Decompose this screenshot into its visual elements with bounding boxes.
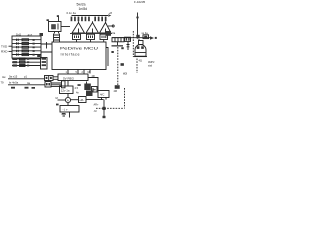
- xtal note: [148, 61, 155, 68]
- svg-text:4n7: 4n7: [28, 33, 33, 37]
- note text top: [77, 2, 88, 11]
- bell feed nub: [139, 39, 144, 45]
- junction dot HV: [136, 35, 139, 39]
- apex feed wires: [79, 21, 106, 23]
- RXD label: [1, 50, 12, 54]
- svg-text:F-10235: F-10235: [134, 0, 146, 4]
- dashed boundary bell left: [132, 31, 134, 57]
- svg-text:xtal: xtal: [148, 65, 152, 68]
- wire B1 to drivers: [61, 26, 70, 28]
- 12V supply box: [60, 84, 81, 93]
- svg-text:br 4n0a: br 4n0a: [9, 81, 19, 85]
- ladder label: [16, 33, 43, 37]
- breaker box: [125, 37, 131, 41]
- rail note text: [67, 11, 77, 15]
- svg-text:5V REG: 5V REG: [63, 76, 75, 80]
- TXD label: [1, 45, 12, 49]
- harness connector: [62, 81, 66, 88]
- MCU bottom pins: [66, 70, 91, 75]
- svg-text:1n/8d: 1n/8d: [79, 7, 88, 11]
- svg-text:4/C: 4/C: [100, 93, 104, 97]
- shunt to motor wire: [86, 99, 104, 101]
- HV feed line: [136, 13, 138, 38]
- load box: [98, 91, 109, 100]
- regulator box 5V: [58, 74, 88, 81]
- snubber box B1: [47, 19, 62, 31]
- ladder to MCU wires: [41, 42, 52, 52]
- label 4n: [76, 91, 79, 95]
- base box M1: [73, 34, 81, 42]
- driver transistor Q3: [100, 23, 112, 34]
- svg-text:1kΩ: 1kΩ: [16, 33, 21, 37]
- battery ground: [62, 112, 70, 118]
- part number top right: [134, 0, 146, 4]
- svg-text:A3: A3: [123, 71, 127, 75]
- svg-text:4.5: 4.5: [75, 86, 79, 90]
- base box M2: [87, 34, 95, 42]
- svg-text:4a: 4a: [27, 81, 30, 85]
- svg-text:RXD: RXD: [1, 50, 8, 54]
- capacitor C20: [127, 42, 130, 50]
- connector ladder J1: [54, 32, 60, 43]
- opto ladder block: [12, 36, 41, 58]
- svg-text:Interface: Interface: [61, 52, 80, 56]
- shield tie bar: [111, 42, 123, 53]
- harness wires: [51, 83, 62, 87]
- left filter row C: [12, 64, 41, 66]
- svg-text:4R: 4R: [92, 75, 95, 78]
- bell / horn: [134, 45, 148, 63]
- left filter row B: [12, 61, 41, 63]
- battery box: [56, 104, 79, 112]
- ladder components: [17, 39, 41, 57]
- svg-text:+M-: +M-: [79, 98, 84, 102]
- svg-text:0.1n 4a: 0.1n 4a: [67, 11, 77, 15]
- svg-text:A: A: [67, 98, 69, 102]
- svg-text:4Ω: 4Ω: [139, 58, 142, 62]
- svg-text:p1: p1: [24, 75, 27, 79]
- supply spine: [67, 81, 69, 106]
- diode block D1: [84, 82, 91, 91]
- A3 label: [121, 63, 128, 75]
- NTC box: [45, 82, 51, 88]
- diode block D3: [86, 91, 93, 97]
- dashed boundary right mid: [117, 47, 119, 86]
- AC input line 1: [2, 75, 45, 79]
- rail dropper resistors: [71, 17, 107, 22]
- svg-text:4w: 4w: [2, 75, 5, 79]
- svg-text:4M: 4M: [114, 90, 117, 93]
- motor line: [94, 100, 106, 119]
- MCU text: [60, 47, 99, 57]
- ammeter A: [65, 97, 70, 102]
- fuse F2: [142, 31, 149, 38]
- base box M3: [100, 34, 108, 42]
- svg-text:AR+: AR+: [94, 104, 99, 107]
- svg-text:M.: M.: [56, 96, 59, 100]
- left filter row A: [12, 58, 41, 60]
- svg-text:5w/2a: 5w/2a: [77, 2, 86, 6]
- svg-text:PeDrive MCU: PeDrive MCU: [60, 47, 99, 51]
- terminal strip X1: [112, 38, 124, 42]
- dashed boundary right low: [124, 88, 126, 108]
- dashed boundary bell low: [136, 59, 138, 74]
- +B supply rail: [72, 11, 113, 17]
- filter connector box: [41, 58, 48, 70]
- svg-text:12v 1a: 12v 1a: [61, 88, 70, 92]
- AC input line 2: [1, 81, 46, 85]
- dashed return bottom: [96, 107, 125, 109]
- input connector: [45, 76, 59, 81]
- regulator output wire: [88, 75, 98, 91]
- emitter baseline: [70, 32, 112, 34]
- shunt box: [71, 97, 86, 103]
- output wire: [112, 37, 150, 39]
- MCU U1: [52, 42, 106, 70]
- feed arrowhead: [150, 36, 157, 39]
- aux mark 4M: [114, 85, 120, 93]
- svg-text:0a: 0a: [112, 31, 115, 35]
- svg-text:- | +: - | +: [63, 108, 68, 112]
- svg-text:+8: +8: [109, 11, 113, 15]
- driver transistor Q2: [86, 23, 99, 34]
- stray marks: [11, 87, 35, 89]
- svg-text:TXD: TXD: [1, 45, 8, 49]
- B1 top marks: [57, 15, 59, 21]
- svg-text:0a n15: 0a n15: [9, 75, 18, 79]
- svg-text:-M: -M: [94, 110, 97, 113]
- right stub from MCU: [106, 48, 108, 67]
- diode block D2: [92, 87, 98, 93]
- svg-text:79: 79: [1, 81, 4, 85]
- sense terminal: [108, 25, 114, 27]
- triangle centre pins: [79, 29, 106, 34]
- ammeter left stub: [56, 96, 66, 100]
- svg-text:4n: 4n: [76, 91, 79, 95]
- output feed box: [106, 31, 116, 36]
- driver transistor Q1: [72, 23, 85, 34]
